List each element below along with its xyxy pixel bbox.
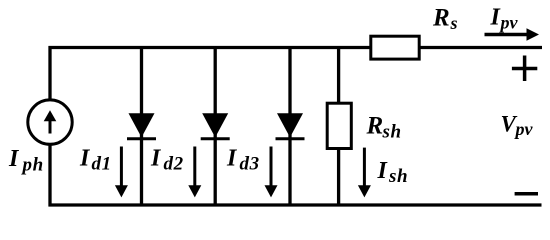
wire bottom rail (49, 203, 542, 206)
current source arrow (up) (44, 110, 57, 133)
wire top rail (49, 46, 543, 49)
svg-text:d1: d1 (92, 154, 112, 175)
svg-text:pv: pv (499, 13, 519, 33)
svg-text:R: R (432, 5, 450, 32)
resistor Rs (series box) (371, 36, 419, 59)
resistor Rsh (vertical box) (327, 103, 351, 148)
svg-text:ph: ph (21, 155, 44, 176)
wire diode D3 branch (288, 46, 291, 207)
wire diode D1 branch (140, 46, 143, 207)
wire left branch (current source branch) (48, 46, 51, 207)
current arrow Id3 (265, 147, 278, 198)
diode D3 (276, 113, 305, 139)
current arrow Id2 (188, 147, 201, 198)
svg-text:sh: sh (382, 122, 402, 143)
svg-text:s: s (450, 13, 458, 33)
diode D2 (201, 113, 230, 139)
svg-text:d3: d3 (240, 154, 260, 175)
svg-text:I: I (150, 146, 162, 172)
minus terminal (515, 192, 538, 196)
label Vpv (501, 112, 534, 140)
current arrow Ish (358, 148, 371, 198)
wire Rsh branch (337, 46, 340, 207)
label Id1 (79, 146, 112, 175)
label Ipv (490, 5, 519, 33)
svg-text:sh: sh (388, 166, 408, 187)
svg-text:I: I (8, 146, 20, 172)
current source Iph (circle) (28, 100, 72, 144)
svg-text:pv: pv (514, 119, 534, 139)
wire diode D2 branch (214, 46, 217, 207)
plus terminal (512, 56, 537, 82)
current arrow Id1 (115, 147, 128, 198)
svg-text:R: R (366, 113, 384, 140)
label Rs (432, 5, 458, 34)
svg-text:I: I (79, 146, 91, 172)
svg-text:d2: d2 (164, 154, 184, 175)
current arrow Ipv (right) (485, 28, 540, 41)
label Id2 (150, 146, 184, 175)
label Id3 (226, 146, 260, 175)
label Ish (377, 158, 409, 187)
label Iph (8, 146, 44, 176)
svg-text:I: I (377, 158, 389, 184)
label Rsh (366, 113, 402, 143)
svg-text:I: I (226, 146, 238, 172)
diode D1 (127, 113, 156, 139)
